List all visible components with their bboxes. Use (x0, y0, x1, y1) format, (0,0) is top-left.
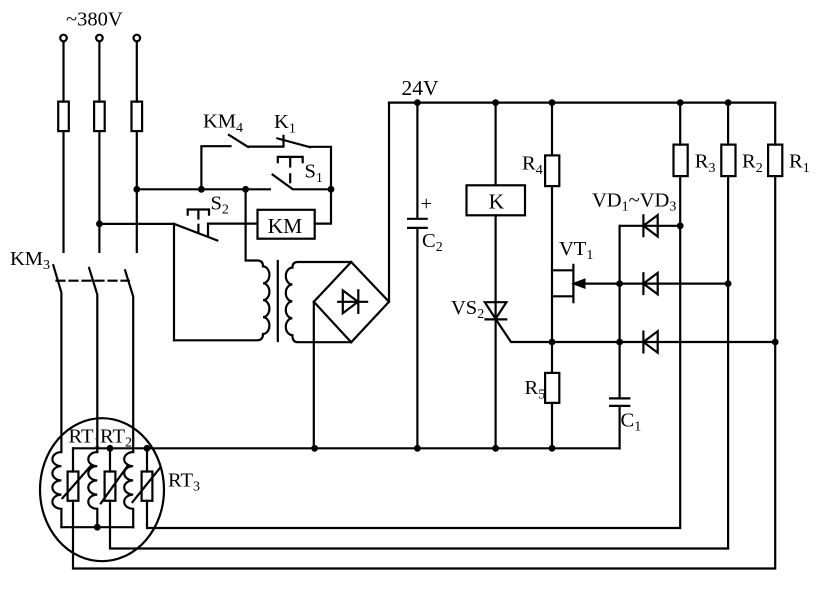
svg-text:R1: R1 (789, 150, 810, 176)
svg-text:RT2: RT2 (100, 426, 132, 451)
svg-text:R2: R2 (742, 150, 763, 176)
svg-text:RT1: RT1 (69, 426, 101, 451)
svg-text:C2: C2 (422, 230, 443, 255)
svg-text:~380V: ~380V (66, 8, 123, 30)
svg-text:K1: K1 (274, 111, 296, 136)
svg-text:R4: R4 (522, 152, 543, 178)
svg-text:S1: S1 (305, 161, 323, 186)
svg-text:VD1~VD3: VD1~VD3 (592, 189, 676, 214)
svg-text:S2: S2 (211, 193, 229, 218)
svg-text:R3: R3 (695, 150, 716, 176)
svg-text:R5: R5 (525, 377, 546, 403)
svg-text:RT3: RT3 (168, 469, 200, 494)
svg-text:KM4: KM4 (203, 111, 243, 136)
svg-text:K: K (489, 190, 505, 214)
svg-text:24V: 24V (402, 76, 440, 100)
svg-text:VS2: VS2 (451, 297, 484, 322)
svg-text:+: + (421, 193, 433, 215)
svg-text:KM: KM (268, 214, 303, 238)
svg-text:KM3: KM3 (10, 248, 50, 273)
svg-text:VT1: VT1 (559, 238, 593, 263)
svg-text:C1: C1 (621, 410, 642, 435)
